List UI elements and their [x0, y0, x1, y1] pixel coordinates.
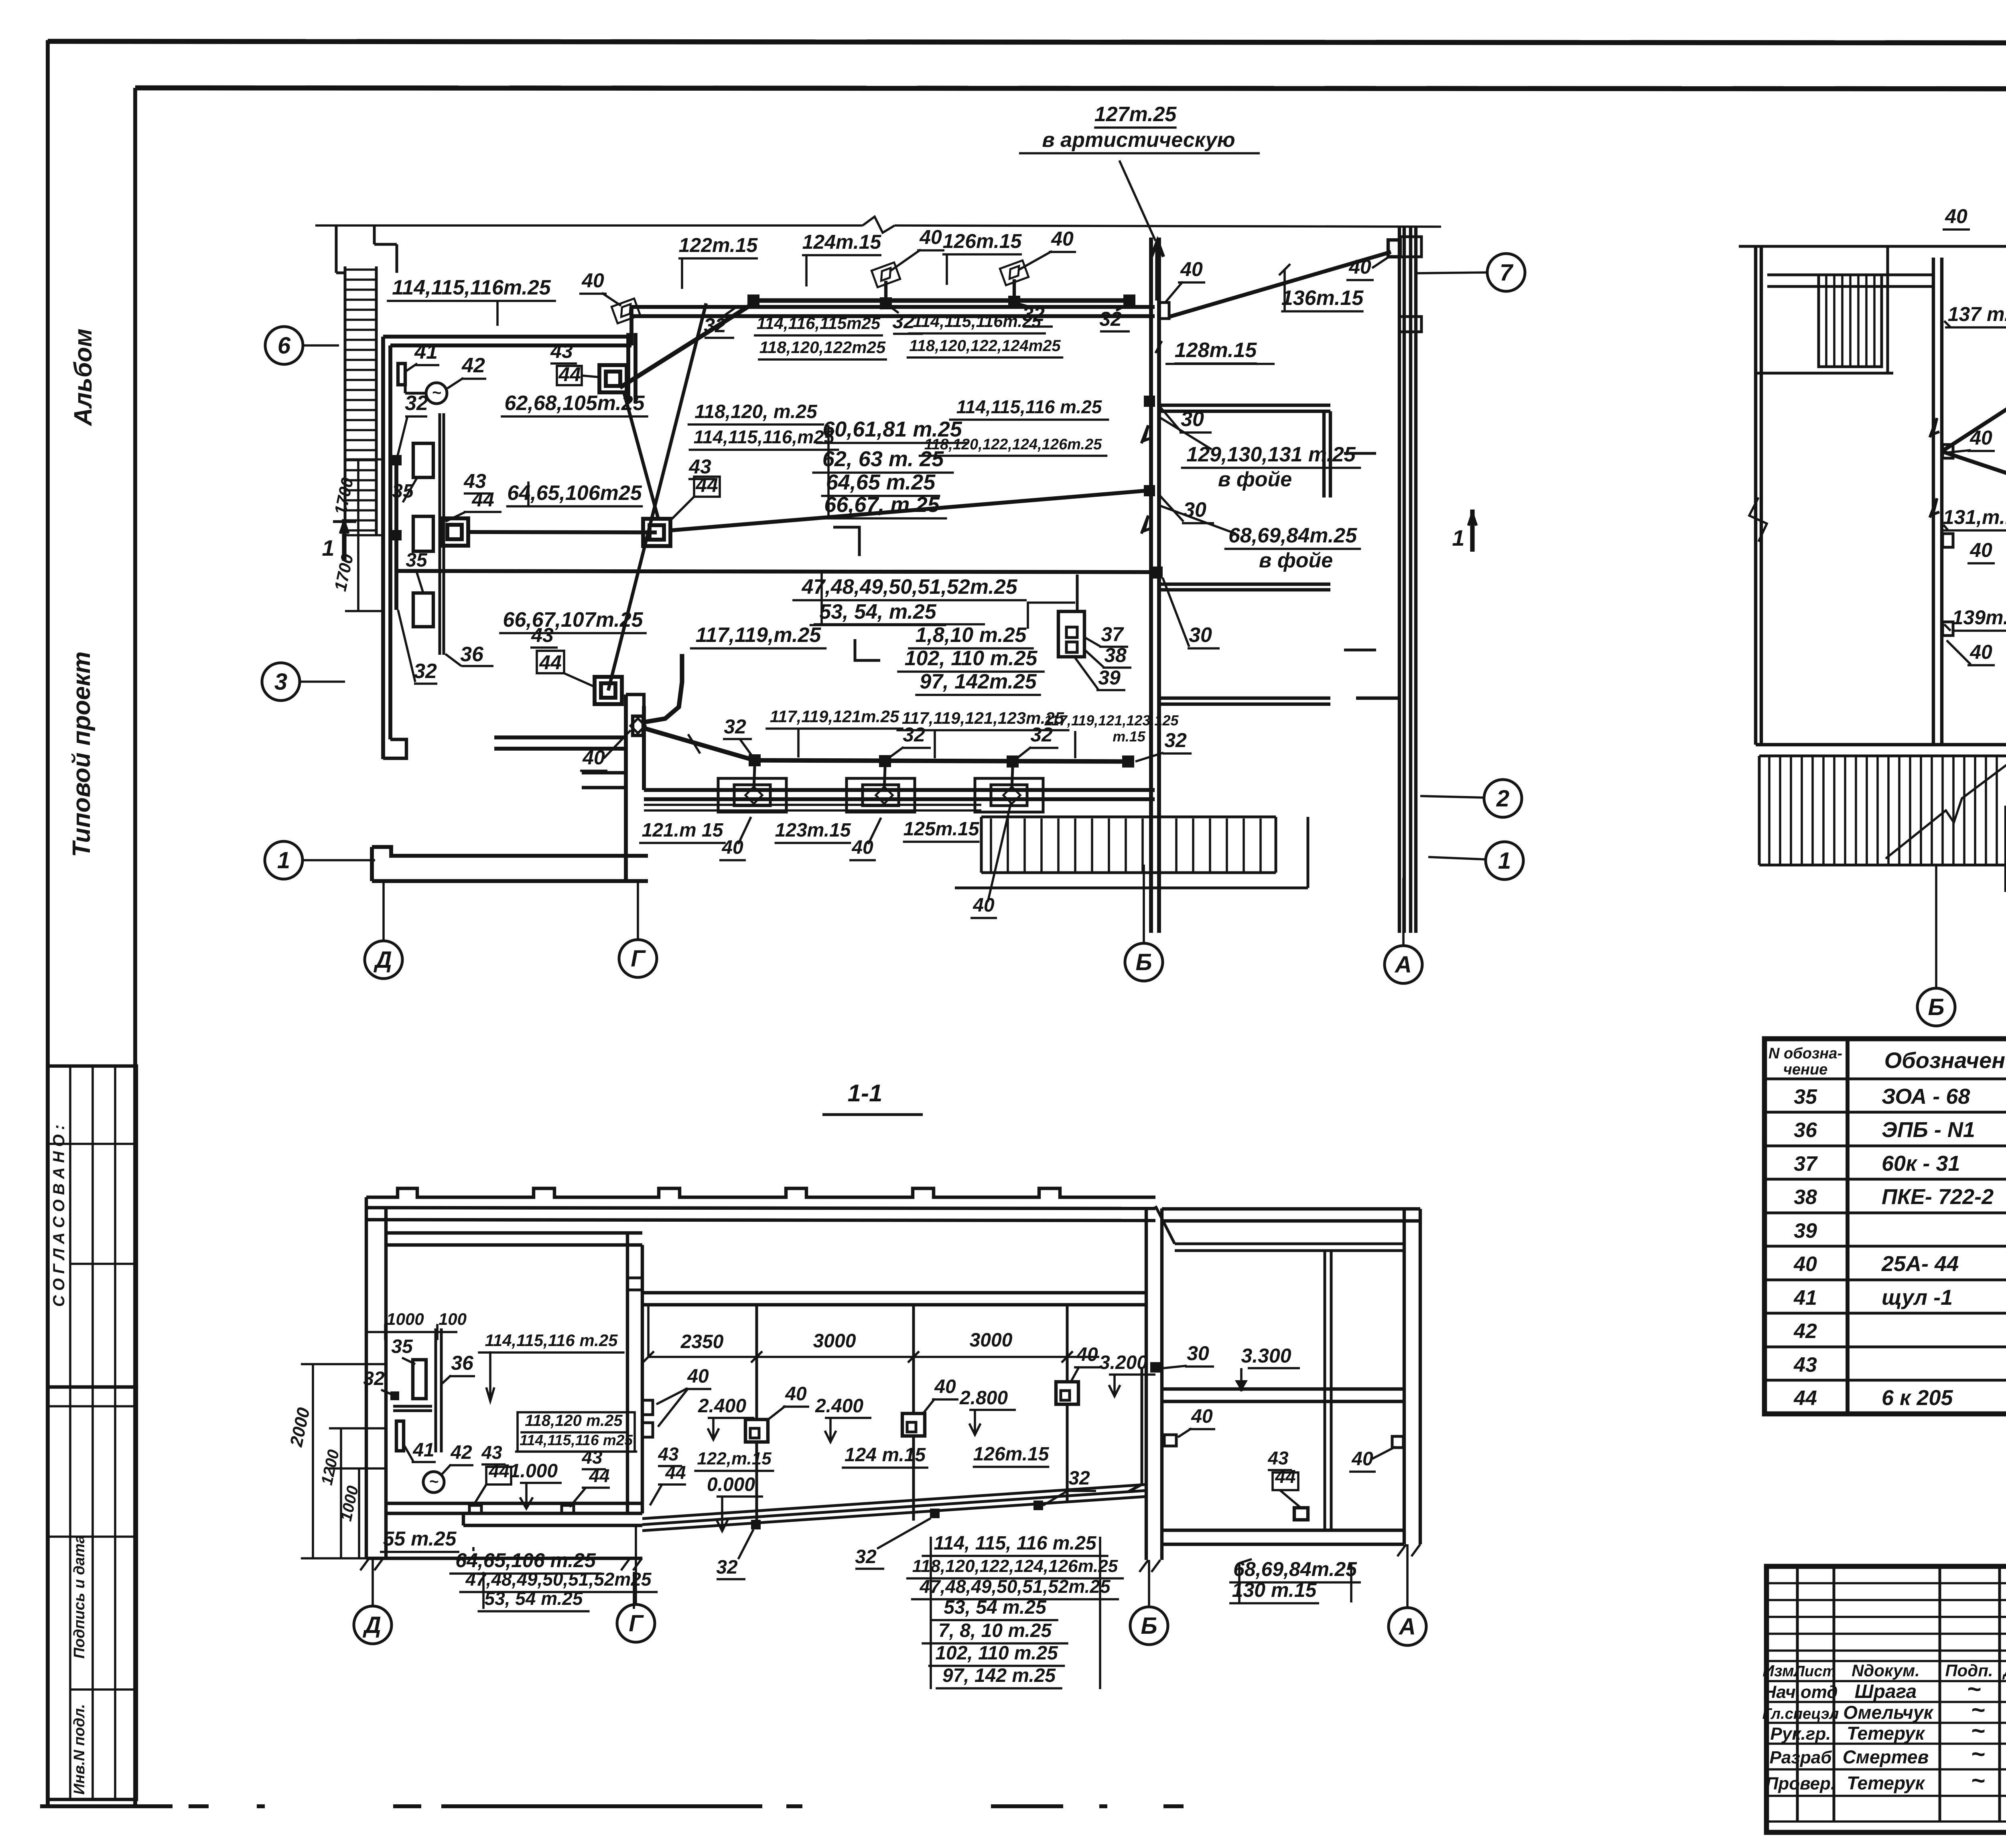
- svg-text:41: 41: [1793, 1286, 1817, 1310]
- svg-text:3.200: 3.200: [1099, 1352, 1147, 1373]
- svg-text:ЗОА - 68: ЗОА - 68: [1882, 1084, 1970, 1109]
- svg-text:43: 43: [1793, 1353, 1817, 1377]
- svg-text:Смертев: Смертев: [1843, 1746, 1929, 1767]
- svg-text:7, 8, 10 т.25: 7, 8, 10 т.25: [938, 1620, 1052, 1641]
- junction 32 d: [1123, 294, 1135, 307]
- cable hall wall to corridor speaker: [1169, 252, 1391, 317]
- svg-text:А: А: [1394, 952, 1412, 978]
- svg-text:66,67, т.25: 66,67, т.25: [824, 493, 940, 517]
- svg-text:Подпись и дата: Подпись и дата: [71, 1535, 88, 1659]
- axis leader 2 right: [1420, 796, 1484, 798]
- svg-text:118,120,122,124,126т.25: 118,120,122,124,126т.25: [912, 1556, 1118, 1576]
- section roof slab: [366, 1208, 1155, 1208]
- wall box f2: [1943, 534, 1953, 547]
- wall speaker 40 c: [611, 299, 640, 323]
- svg-text:2.400: 2.400: [698, 1395, 746, 1417]
- svg-text:114,115,116т.25: 114,115,116т.25: [392, 276, 551, 299]
- dimension 1700 lower: [357, 535, 359, 611]
- foyer bottom floor line: [1756, 743, 2006, 746]
- svg-text:Рук.гр.: Рук.гр.: [1770, 1724, 1831, 1744]
- svg-text:32: 32: [1099, 308, 1122, 330]
- svg-text:131,т.15: 131,т.15: [1943, 506, 2006, 528]
- wall box f1: [1943, 445, 1953, 458]
- svg-text:40: 40: [1793, 1253, 1817, 1276]
- svg-text:121.т 15: 121.т 15: [642, 820, 724, 841]
- svg-text:чение: чение: [1783, 1061, 1828, 1078]
- axis leader 7: [1416, 272, 1487, 273]
- svg-text:40: 40: [1348, 256, 1371, 278]
- svg-text:41: 41: [412, 1440, 434, 1461]
- axis circle Д plan: [365, 941, 402, 979]
- svg-text:53, 54 т.25: 53, 54 т.25: [485, 1588, 583, 1609]
- right block inner wall: [1324, 1251, 1326, 1530]
- svg-text:30: 30: [1187, 1342, 1209, 1365]
- svg-text:44: 44: [471, 488, 494, 511]
- winch 42 section: [423, 1472, 444, 1493]
- hall bottom wall: [644, 788, 1155, 792]
- radiator marks: [1344, 452, 1376, 455]
- svg-text:55 т.25: 55 т.25: [383, 1527, 457, 1550]
- foyer top line: [1739, 245, 2006, 248]
- svg-text:1000: 1000: [386, 1310, 424, 1328]
- svg-text:~: ~: [432, 384, 441, 402]
- dim 1000 100: [366, 1331, 457, 1333]
- svg-text:32: 32: [716, 1557, 738, 1578]
- wall box f4: [1943, 622, 1953, 636]
- svg-text:2350: 2350: [680, 1331, 724, 1352]
- svg-text:40: 40: [1969, 539, 1992, 561]
- ground hatch marks section: [360, 1558, 369, 1570]
- axis circle 6: [265, 327, 303, 364]
- svg-text:53, 54, т.25: 53, 54, т.25: [819, 600, 936, 623]
- svg-text:в артистическую: в артистическую: [1042, 128, 1235, 152]
- stage-hall division wall upper: [626, 333, 630, 403]
- arrow mark a: [1141, 425, 1151, 443]
- stage front edge: [494, 735, 626, 739]
- svg-text:64,65 т.25: 64,65 т.25: [826, 470, 936, 494]
- svg-text:102, 110 т.25: 102, 110 т.25: [905, 647, 1038, 670]
- wall box 40 r2: [1392, 1436, 1403, 1448]
- svg-text:139т.25: 139т.25: [1952, 606, 2006, 629]
- axis circle А plan: [1385, 946, 1422, 983]
- svg-text:3000: 3000: [813, 1330, 856, 1352]
- shelf: [393, 1405, 432, 1408]
- svg-text:102, 110 т.25: 102, 110 т.25: [935, 1643, 1058, 1664]
- mic box 44 left: [441, 518, 468, 546]
- svg-text:43: 43: [1267, 1448, 1289, 1468]
- svg-text:Г: Г: [631, 946, 646, 972]
- axis circle Г sec: [617, 1604, 655, 1642]
- svg-text:40: 40: [581, 269, 604, 292]
- junction 32 b: [880, 297, 892, 309]
- svg-text:~: ~: [1971, 1767, 1985, 1794]
- bottom dashed sheet edge: [40, 1804, 173, 1808]
- svg-text:44: 44: [1793, 1387, 1817, 1410]
- axis circle Б plan: [1125, 943, 1163, 981]
- svg-text:43: 43: [581, 1447, 603, 1468]
- svg-text:38: 38: [1104, 644, 1127, 666]
- window band below hall: [644, 804, 981, 806]
- svg-text:35: 35: [391, 1336, 413, 1357]
- svg-text:1-1: 1-1: [848, 1080, 883, 1107]
- svg-text:~: ~: [429, 1473, 438, 1491]
- svg-text:114,115,116 т.25: 114,115,116 т.25: [956, 396, 1102, 417]
- window speaker 40 a: [745, 787, 762, 804]
- svg-text:62, 63 т. 25: 62, 63 т. 25: [822, 447, 944, 471]
- svg-text:40: 40: [785, 1383, 807, 1405]
- upper room bottom wall: [383, 335, 631, 339]
- svg-text:126т.15: 126т.15: [943, 230, 1022, 252]
- svg-text:30: 30: [1189, 623, 1212, 647]
- svg-text:40: 40: [582, 746, 605, 769]
- svg-text:в фойе: в фойе: [1259, 549, 1333, 572]
- external stair bottom right: [981, 816, 1276, 818]
- axis circle Г plan: [619, 940, 657, 977]
- mic box 44 lower: [595, 677, 622, 704]
- svg-text:1: 1: [277, 847, 290, 873]
- svg-text:Гл.спецэл: Гл.спецэл: [1762, 1706, 1839, 1722]
- svg-text:100: 100: [439, 1310, 467, 1328]
- svg-text:43: 43: [658, 1444, 679, 1464]
- foyer stair: [1819, 275, 1882, 367]
- wall box 40 hall side: [1159, 303, 1169, 319]
- section cut mark 1 left: [342, 519, 346, 561]
- speaker 35 section: [413, 1360, 426, 1399]
- svg-text:Разраб: Разраб: [1770, 1748, 1833, 1767]
- plan top boundary line: [315, 224, 863, 227]
- svg-text:118,120,122,124т25: 118,120,122,124т25: [909, 337, 1061, 355]
- svg-text:36: 36: [1794, 1119, 1817, 1142]
- junction 32 g: [1007, 755, 1019, 768]
- svg-text:60,61,81 т.25: 60,61,81 т.25: [822, 417, 962, 441]
- axis circle Д sec: [354, 1606, 392, 1644]
- axis drop Г: [637, 881, 639, 940]
- svg-text:32: 32: [724, 715, 746, 738]
- svg-text:117,119,121т.25: 117,119,121т.25: [770, 707, 899, 726]
- axis drop Д: [382, 881, 385, 942]
- axis circle Б foyer: [1917, 988, 1955, 1026]
- svg-text:1: 1: [1452, 525, 1464, 550]
- svg-text:Типовой проект: Типовой проект: [68, 652, 95, 857]
- svg-text:ЭПБ - N1: ЭПБ - N1: [1882, 1118, 1975, 1142]
- svg-text:36: 36: [460, 643, 484, 666]
- svg-text:1.000: 1.000: [510, 1460, 558, 1482]
- svg-text:128т.15: 128т.15: [1175, 339, 1257, 362]
- winch control 41: [398, 364, 405, 385]
- svg-text:Б: Б: [1141, 1613, 1157, 1639]
- svg-text:36: 36: [451, 1352, 474, 1374]
- svg-text:~: ~: [1971, 1740, 1985, 1767]
- svg-text:64,65,106 т.25: 64,65,106 т.25: [455, 1549, 596, 1572]
- stage bottom wall: [372, 847, 648, 856]
- window speaker 40 b: [876, 787, 893, 804]
- sidebar grid inventory block: [48, 1387, 136, 1799]
- svg-text:137 т.15: 137 т.15: [1948, 303, 2006, 325]
- corner bracket marks: [833, 527, 859, 556]
- cable stage diagonal upper: [620, 303, 753, 388]
- svg-text:44: 44: [589, 1465, 609, 1486]
- svg-text:Провер.: Провер.: [1766, 1774, 1835, 1793]
- axis leader 3: [300, 680, 345, 683]
- foyer left wall: [1754, 246, 1757, 745]
- cinema speaker 35 top: [413, 443, 433, 477]
- cinema speaker 35 middle: [413, 516, 433, 551]
- foyer stair direction mark: [1886, 762, 2006, 859]
- arrow f1: [1930, 418, 1939, 437]
- foyer diagonal cable 2: [1942, 451, 2006, 534]
- svg-text:127т.25: 127т.25: [1094, 103, 1177, 126]
- wall speaker 40 b: [1000, 260, 1028, 285]
- junction 30 sec: [1150, 1362, 1161, 1373]
- axis circle 2 right: [1484, 780, 1522, 817]
- svg-text:Nдокум.: Nдокум.: [1852, 1661, 1920, 1680]
- equipment table grid: [1764, 1039, 2006, 1414]
- right block right wall: [1403, 1209, 1406, 1544]
- svg-text:Шрага: Шрага: [1855, 1681, 1917, 1702]
- svg-text:123т.15: 123т.15: [775, 820, 851, 841]
- svg-text:С О Г Л А С О В А Н О :: С О Г Л А С О В А Н О :: [50, 1125, 68, 1307]
- cinema speaker 35 bottom: [413, 593, 433, 627]
- stair side walk: [980, 817, 983, 873]
- cable corner rise: [644, 654, 682, 722]
- svg-text:114,115,116 т25: 114,115,116 т25: [520, 1432, 633, 1448]
- corner speaker 40: [1388, 240, 1400, 257]
- svg-text:2.800: 2.800: [959, 1387, 1008, 1409]
- window speaker 40 c: [1003, 787, 1020, 804]
- cable diagonal to lower mic: [608, 303, 706, 690]
- winch panel 41 section: [396, 1421, 404, 1451]
- foyer internal wall top: [1767, 274, 1933, 276]
- axis drop А: [1402, 878, 1405, 946]
- junction 32 top: [391, 455, 402, 465]
- section left wall: [365, 1197, 368, 1558]
- svg-text:2.400: 2.400: [815, 1395, 863, 1417]
- svg-text:1,8,10 т.25: 1,8,10 т.25: [916, 623, 1027, 647]
- stage floor box 44 marks: [469, 1505, 481, 1513]
- exterior stair hatch band: [344, 266, 347, 535]
- svg-text:Изм.: Изм.: [1762, 1662, 1798, 1680]
- axis leader 6: [303, 344, 339, 347]
- svg-text:66,67,107т.25: 66,67,107т.25: [503, 608, 643, 632]
- junction 32 e: [749, 754, 761, 766]
- svg-text:40: 40: [1945, 205, 1967, 227]
- svg-text:40: 40: [1191, 1406, 1213, 1427]
- hall ceiling slab: [642, 1291, 1147, 1294]
- svg-text:Тетерук: Тетерук: [1847, 1773, 1925, 1793]
- svg-text:40: 40: [1076, 1344, 1098, 1365]
- wall box 40 r1: [1164, 1435, 1176, 1446]
- svg-text:Б: Б: [1135, 949, 1152, 975]
- svg-text:97, 142т.25: 97, 142т.25: [920, 670, 1037, 693]
- svg-text:т.15: т.15: [1113, 728, 1146, 745]
- svg-text:114,115,116,т25: 114,115,116,т25: [694, 426, 835, 447]
- svg-text:32: 32: [1164, 729, 1187, 751]
- wall speaker 40 a: [871, 262, 900, 287]
- svg-text:124т.15: 124т.15: [802, 231, 882, 253]
- section roof outline: [366, 1188, 1155, 1197]
- screen section 36: [434, 1328, 437, 1452]
- svg-text:в фойе: в фойе: [1218, 468, 1292, 491]
- svg-text:3.300: 3.300: [1241, 1344, 1291, 1367]
- wall boxes 40 at stage wall: [642, 1400, 653, 1415]
- axis circle 7: [1487, 254, 1525, 291]
- svg-text:53, 54 т.25: 53, 54 т.25: [944, 1597, 1047, 1618]
- stage-hall division jamb: [624, 695, 628, 881]
- junction 30 b on wall: [1144, 485, 1155, 496]
- svg-text:37: 37: [1794, 1152, 1818, 1176]
- hall right wall section: [1145, 1208, 1148, 1560]
- drop to window speaker f: [884, 767, 885, 790]
- outer border left: [46, 40, 50, 1805]
- stage ceiling slab: [386, 1231, 642, 1235]
- svg-text:25А- 44: 25А- 44: [1881, 1252, 1959, 1276]
- svg-text:40: 40: [919, 226, 942, 248]
- hall floor slope: [642, 1484, 1146, 1519]
- axis leader 1 right: [1428, 857, 1486, 859]
- stage block left wall: [381, 337, 385, 759]
- svg-text:117,119,121,123,125: 117,119,121,123,125: [1044, 712, 1179, 729]
- svg-text:42: 42: [450, 1442, 472, 1463]
- svg-text:114,115,116т.25: 114,115,116т.25: [913, 312, 1041, 331]
- arrow f2: [1930, 498, 1939, 518]
- dim line section top: [648, 1356, 1099, 1358]
- mic box r: [1294, 1508, 1308, 1520]
- drop to window speaker e: [754, 766, 755, 790]
- svg-text:6: 6: [278, 333, 291, 359]
- cable rise to wall: [1128, 1367, 1142, 1492]
- junction 32 f: [879, 755, 891, 767]
- svg-text:44: 44: [488, 1460, 509, 1481]
- svg-text:35: 35: [1794, 1085, 1817, 1109]
- svg-text:1: 1: [322, 535, 334, 560]
- hall trunk cable lower: [397, 571, 1157, 572]
- junction 32 h: [1122, 755, 1134, 768]
- svg-text:97, 142 т.25: 97, 142 т.25: [942, 1665, 1056, 1686]
- ceiling speaker drop 1: [755, 1305, 758, 1420]
- hall right wall: [1149, 238, 1153, 933]
- svg-text:40: 40: [687, 1366, 709, 1387]
- svg-text:ПКЕ- 722-2: ПКЕ- 722-2: [1882, 1185, 1994, 1209]
- svg-text:щул -1: щул -1: [1882, 1285, 1953, 1310]
- svg-text:Обозначение: Обозначение: [1884, 1048, 2006, 1073]
- svg-text:136т.15: 136т.15: [1281, 286, 1364, 310]
- center floor cable: [468, 532, 657, 532]
- svg-text:44: 44: [665, 1462, 686, 1483]
- section cut mark 1 right: [1470, 510, 1474, 552]
- cable center to right wall: [670, 491, 1146, 530]
- axis leader 1 left: [303, 859, 375, 861]
- drop to window speaker g: [1012, 768, 1013, 790]
- svg-text:47,48,49,50,51,52т.25: 47,48,49,50,51,52т.25: [801, 575, 1017, 599]
- svg-text:117,119,121,123т.25: 117,119,121,123т.25: [902, 709, 1064, 727]
- foyer corridor wall: [1932, 258, 1935, 745]
- svg-text:Д: Д: [362, 1612, 381, 1638]
- svg-text:3: 3: [274, 669, 287, 695]
- svg-text:1: 1: [1498, 848, 1511, 874]
- corner speaker 40 stage: [633, 716, 643, 735]
- stage floor section: [386, 1502, 642, 1505]
- svg-text:7: 7: [1500, 260, 1514, 286]
- stage base: [366, 1557, 642, 1560]
- axis circle А sec: [1389, 1608, 1426, 1645]
- svg-text:А: А: [1398, 1614, 1416, 1640]
- svg-text:40: 40: [1969, 641, 1992, 663]
- svg-text:Нач.отд: Нач.отд: [1763, 1682, 1837, 1702]
- stage apron: [463, 1524, 642, 1527]
- volume regulator 37 38 39 table: [1058, 611, 1084, 657]
- svg-text:32: 32: [892, 310, 915, 333]
- svg-text:122,т.15: 122,т.15: [697, 1449, 772, 1468]
- svg-text:41: 41: [414, 340, 438, 364]
- svg-text:6 к 205: 6 к 205: [1882, 1386, 1953, 1410]
- axis drop Б: [1143, 865, 1145, 944]
- svg-text:Омельчук: Омельчук: [1843, 1702, 1934, 1723]
- hall bottom cable: [755, 760, 1128, 762]
- foyer entry stairs: [1759, 755, 2006, 757]
- svg-text:32: 32: [405, 392, 428, 415]
- svg-text:32: 32: [414, 660, 437, 683]
- svg-text:N обозна-: N обозна-: [1768, 1045, 1842, 1062]
- junction 32 mid: [391, 530, 402, 540]
- svg-text:42: 42: [461, 354, 485, 377]
- svg-text:44: 44: [539, 651, 562, 674]
- inner frame left: [133, 88, 137, 1806]
- hall top wall: [631, 305, 1155, 309]
- foyer left wall break mark: [1749, 498, 1767, 542]
- cable corner diag: [644, 728, 755, 760]
- svg-text:32: 32: [363, 1368, 385, 1389]
- svg-text:37: 37: [1101, 623, 1124, 646]
- stage left outer wall: [335, 225, 338, 273]
- axis drop А sec: [1406, 1544, 1409, 1607]
- svg-text:~: ~: [1971, 1717, 1985, 1744]
- svg-text:117,119,т.25: 117,119,т.25: [696, 623, 822, 647]
- svg-text:40: 40: [1180, 258, 1203, 280]
- svg-text:40: 40: [973, 895, 995, 916]
- svg-text:Г: Г: [629, 1610, 644, 1637]
- svg-text:130 т.15: 130 т.15: [1232, 1579, 1317, 1601]
- title block outer: [1766, 1566, 2006, 1832]
- outer border top: [48, 41, 2006, 43]
- svg-text:114, 115, 116 т.25: 114, 115, 116 т.25: [934, 1533, 1096, 1554]
- junction 30 trunk: [1151, 567, 1163, 579]
- svg-text:118,120 т.25: 118,120 т.25: [525, 1412, 623, 1430]
- axis circle 3: [262, 663, 300, 701]
- svg-text:47,48,49,50,51,52т25: 47,48,49,50,51,52т25: [465, 1569, 652, 1590]
- svg-text:3000: 3000: [970, 1330, 1013, 1351]
- svg-text:Альбом: Альбом: [69, 329, 97, 426]
- inner frame top: [135, 88, 2006, 89]
- svg-text:43: 43: [550, 340, 573, 362]
- axis circle 1 right: [1486, 842, 1523, 879]
- axis circle 1 left: [265, 841, 303, 879]
- svg-text:40: 40: [1351, 1448, 1373, 1470]
- svg-text:114,115,116 т.25: 114,115,116 т.25: [485, 1331, 618, 1350]
- axis drop Д sec: [372, 1558, 374, 1606]
- svg-text:2: 2: [1496, 786, 1509, 812]
- junction 32 c: [1008, 296, 1020, 308]
- svg-text:68,69,84т.25: 68,69,84т.25: [1228, 524, 1357, 547]
- svg-text:118,120, т.25: 118,120, т.25: [694, 401, 818, 422]
- svg-text:Тетерук: Тетерук: [1847, 1723, 1925, 1744]
- svg-text:38: 38: [1794, 1186, 1817, 1209]
- axis drop Б foyer: [1935, 865, 1937, 989]
- svg-text:125т.15: 125т.15: [904, 818, 980, 840]
- junction 32 a: [747, 294, 759, 307]
- axis drop Б sec: [1148, 1560, 1150, 1606]
- arrow mark b: [1141, 516, 1151, 534]
- corridor partition 1: [1159, 404, 1330, 407]
